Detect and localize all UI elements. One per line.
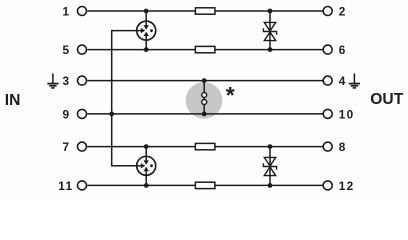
terminal 8: [323, 142, 332, 151]
svg-text:5: 5: [63, 43, 70, 57]
svg-text:10: 10: [339, 107, 355, 121]
node line11/GDT2: [144, 183, 149, 188]
surge arrester highlight circle (gray): [186, 82, 223, 119]
svg-text:11: 11: [58, 179, 73, 193]
terminal 6: [323, 45, 332, 54]
wire line 3-4: [87, 80, 322, 82]
terminal 12: [323, 181, 332, 190]
svg-text:3: 3: [63, 74, 70, 88]
wire TVS D1 vertical: [269, 11, 271, 50]
resistor R1: [195, 8, 215, 14]
terminal 11: [78, 181, 87, 190]
svg-text:2: 2: [339, 5, 346, 19]
node line9/branch: [109, 112, 114, 117]
svg-text:1: 1: [63, 5, 70, 19]
gas discharge tube F1: [137, 21, 156, 40]
svg-text:OUT: OUT: [370, 91, 403, 108]
resistor R4: [195, 182, 215, 188]
resistor R3: [195, 143, 215, 149]
node line9/spark gap: [202, 112, 207, 117]
ground right (terminal 4): [349, 73, 360, 88]
wire line 9-10: [87, 113, 322, 115]
terminal 5: [78, 45, 87, 54]
wire line 5-6: [87, 49, 322, 51]
terminal 10: [323, 109, 332, 118]
terminal 2: [323, 7, 332, 16]
wire spark gap vertical (line3 to line9): [203, 81, 205, 114]
svg-text:7: 7: [63, 140, 70, 154]
terminal 1: [78, 7, 87, 16]
wire GDT F2 vertical (line7 to line11): [145, 147, 147, 186]
terminal 7: [78, 142, 87, 151]
terminal 9: [78, 109, 87, 118]
svg-text:6: 6: [339, 43, 346, 57]
terminal 3: [78, 76, 87, 85]
svg-text:4: 4: [339, 74, 346, 88]
svg-text:IN: IN: [5, 92, 21, 109]
node line12/D2: [268, 183, 273, 188]
ground left (terminal 3): [47, 73, 58, 88]
isolating spark gap (two small circles): [202, 92, 207, 104]
resistor R2: [195, 46, 215, 52]
node line6/D1: [268, 47, 273, 52]
wire TVS D2 vertical: [269, 147, 271, 186]
TVS diode D2: [263, 157, 276, 175]
node line3/spark gap: [202, 78, 207, 83]
svg-text:9: 9: [63, 107, 70, 121]
wire branch to line 9: [112, 31, 137, 166]
node line2/D1: [268, 9, 273, 14]
gas discharge tube F2: [137, 156, 156, 175]
TVS diode D1: [263, 22, 276, 40]
node line8/D2: [268, 144, 273, 149]
wire line 11-12: [87, 184, 322, 186]
wire line 7-8: [87, 146, 322, 148]
svg-text:8: 8: [339, 140, 346, 154]
node line5/GDT1: [144, 47, 149, 52]
terminal 4: [323, 76, 332, 85]
wire line 1-2: [87, 10, 322, 12]
svg-text:*: *: [226, 82, 235, 108]
node line7/GDT2: [144, 144, 149, 149]
svg-text:12: 12: [339, 179, 355, 193]
node line1/GDT1: [144, 9, 149, 14]
wire GDT F1 vertical (line1 to line5): [145, 11, 147, 50]
